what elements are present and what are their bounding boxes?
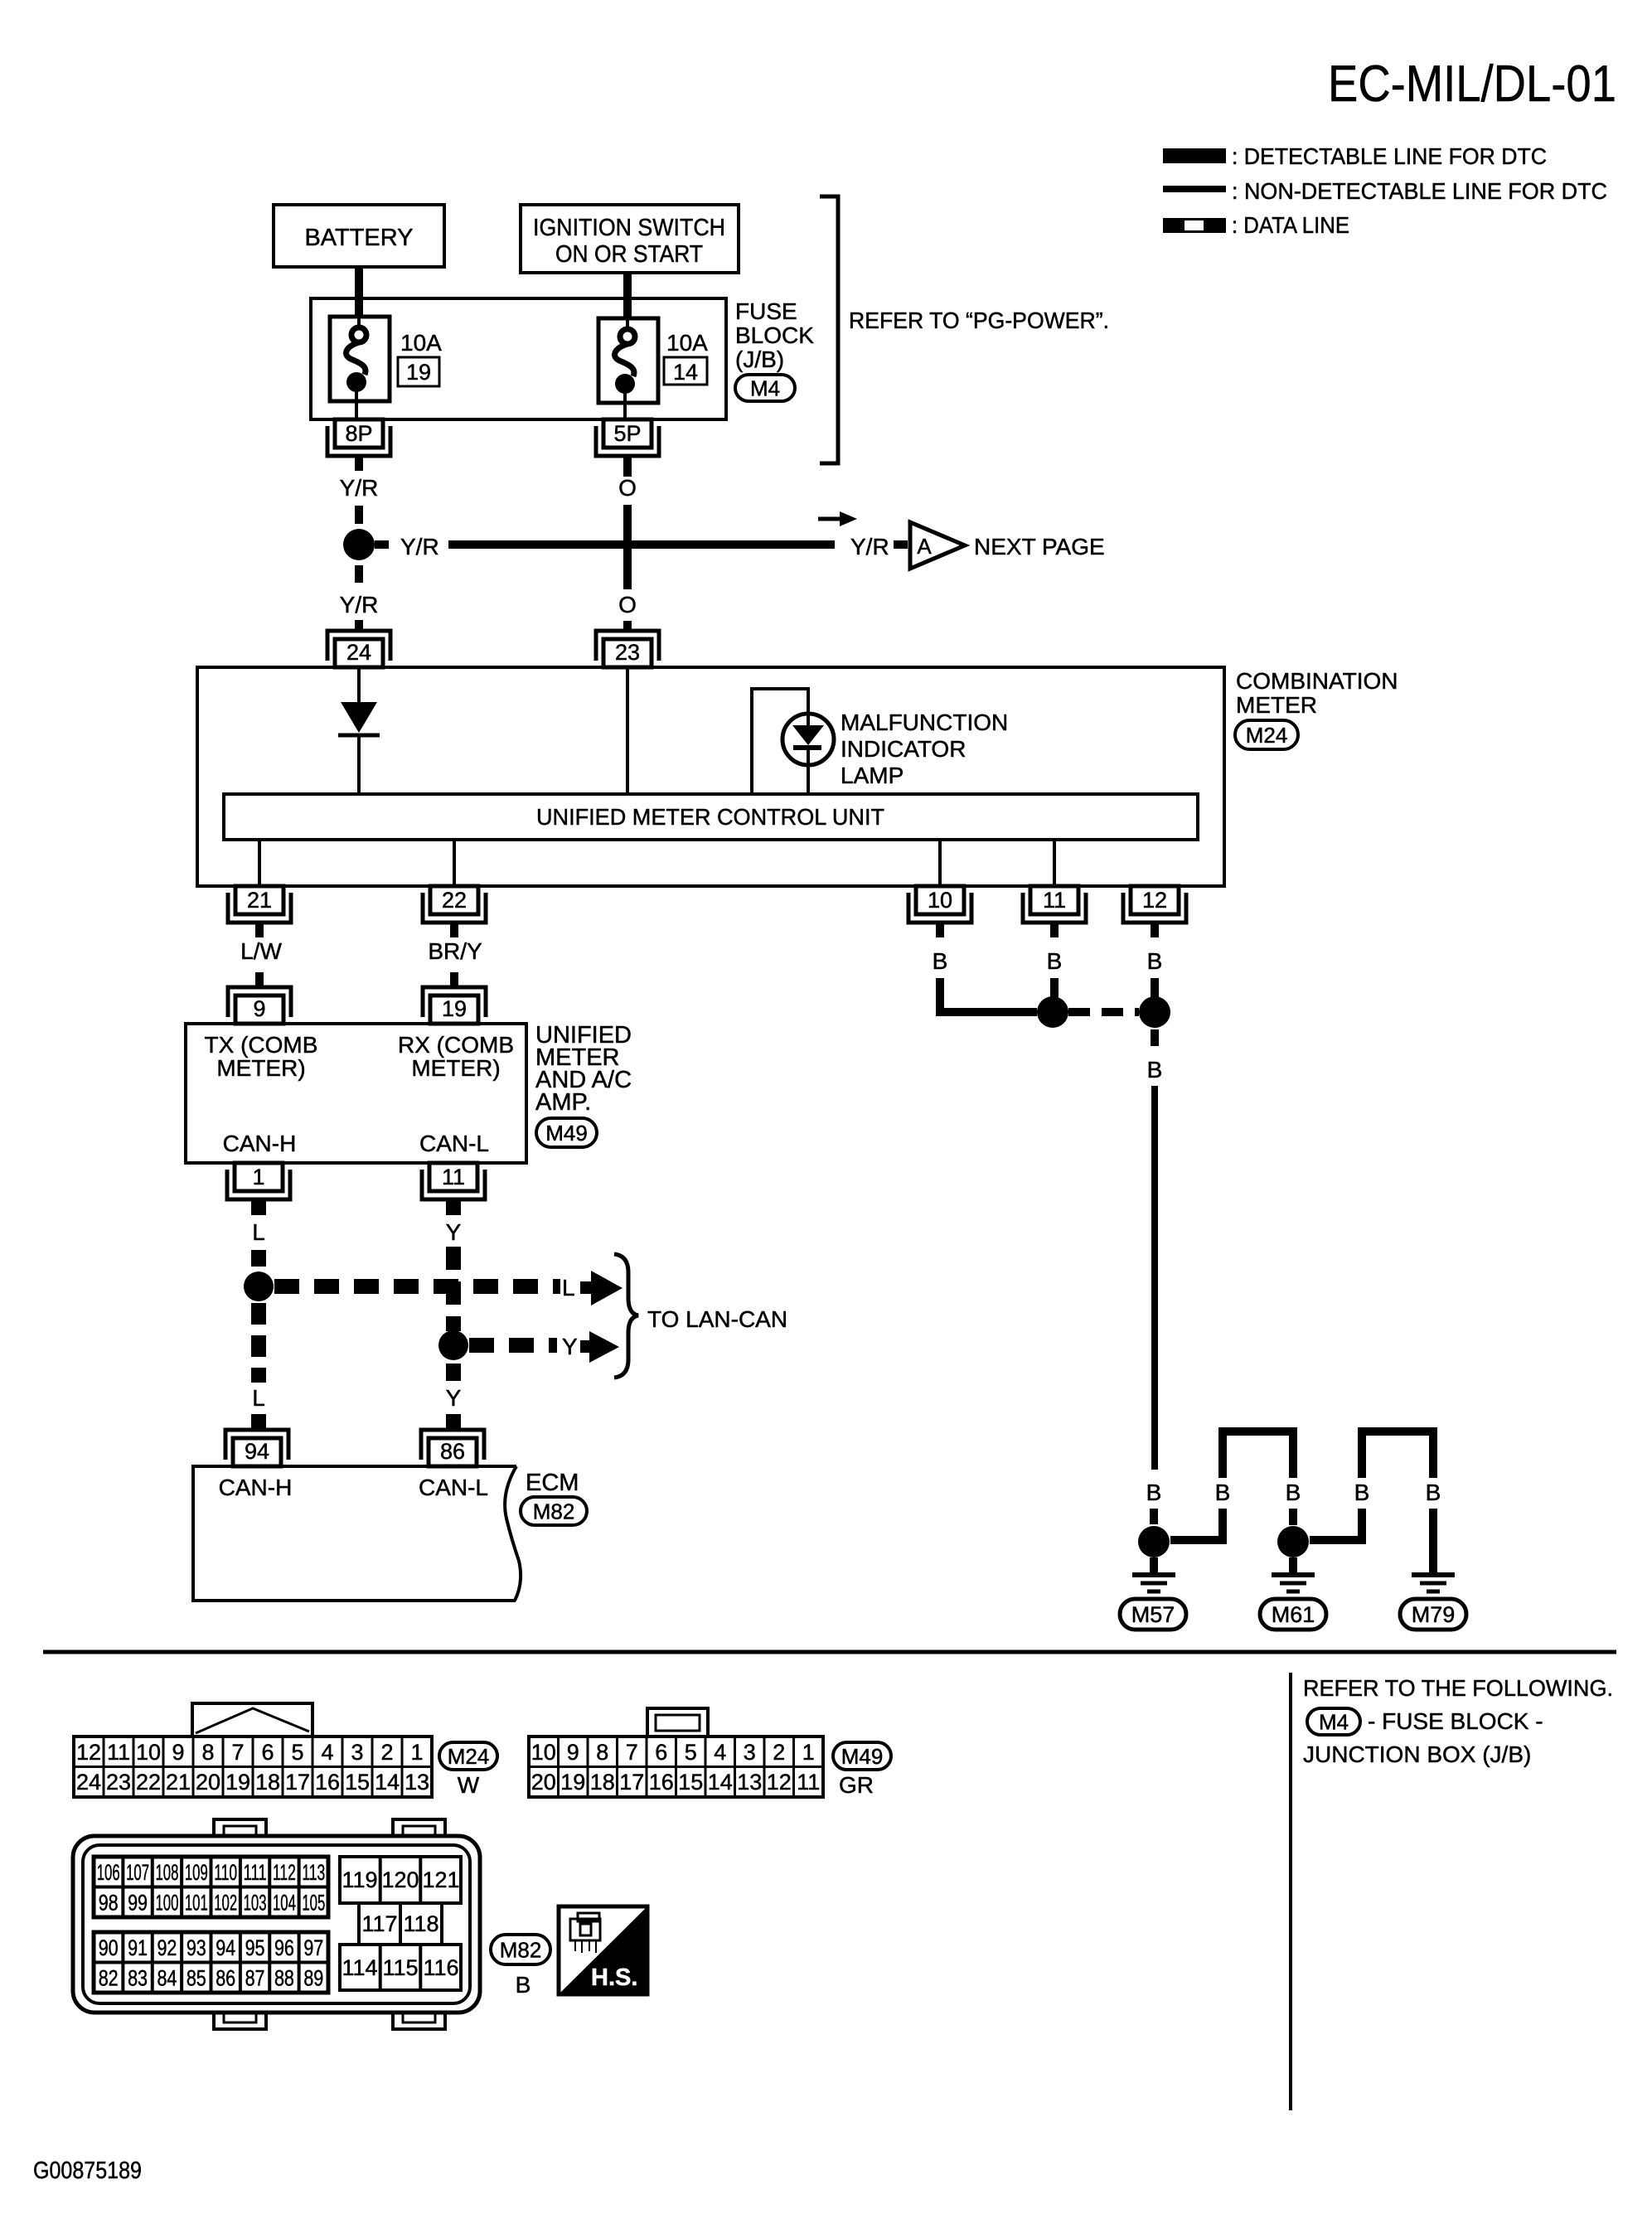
svg-text:13: 13	[737, 1770, 762, 1795]
svg-text:115: 115	[382, 1955, 418, 1980]
svg-text:METER: METER	[1236, 692, 1317, 718]
svg-text:O: O	[618, 475, 637, 501]
svg-text:B: B	[1426, 1480, 1441, 1505]
svg-text:B: B	[933, 948, 948, 974]
svg-text:9: 9	[567, 1740, 579, 1765]
arrow Y to lan-can	[580, 1331, 619, 1363]
svg-text:CAN-L: CAN-L	[419, 1131, 489, 1156]
ground oval M57	[1120, 1599, 1186, 1630]
svg-text:Y: Y	[446, 1385, 462, 1411]
bracket refer to pg-power	[820, 196, 838, 463]
connector 23	[596, 631, 659, 661]
svg-text:: DETECTABLE LINE FOR DTC: : DETECTABLE LINE FOR DTC	[1232, 143, 1547, 169]
M82 top tab 1	[214, 1819, 266, 1837]
label TX comb meter	[205, 1032, 318, 1081]
ground oval M79	[1400, 1599, 1466, 1630]
legend swatch non-detectable line	[1163, 186, 1226, 192]
svg-text:JUNCTION BOX (J/B): JUNCTION BOX (J/B)	[1303, 1741, 1531, 1767]
malfunction indicator lamp	[782, 714, 834, 765]
svg-text:NEXT PAGE: NEXT PAGE	[974, 534, 1105, 559]
svg-text:B: B	[1047, 948, 1063, 974]
svg-text:116: 116	[423, 1955, 458, 1980]
wire pin23 to control unit	[626, 667, 629, 794]
svg-text:103: 103	[244, 1891, 267, 1916]
svg-text:M24: M24	[448, 1744, 490, 1769]
svg-text:24: 24	[346, 640, 371, 665]
svg-text:LAMP: LAMP	[841, 763, 904, 788]
svg-text:B: B	[1354, 1480, 1370, 1505]
junction dot B 2	[1139, 996, 1170, 1028]
wire B from 10 to junction	[940, 978, 1037, 1012]
svg-text:86: 86	[216, 1966, 235, 1991]
wire control unit to pin 21	[258, 840, 261, 886]
svg-text:5P: 5P	[613, 421, 641, 446]
svg-text:6: 6	[261, 1740, 274, 1765]
svg-text:BLOCK: BLOCK	[735, 322, 814, 348]
svg-text:85: 85	[187, 1966, 206, 1991]
svg-text:20: 20	[196, 1770, 220, 1795]
svg-text:11: 11	[107, 1740, 130, 1765]
M82 bottom tab 2	[393, 2012, 445, 2029]
svg-text:B: B	[516, 1972, 531, 1998]
svg-text:118: 118	[403, 1911, 438, 1936]
wire ignition switch to fuse block	[623, 273, 632, 320]
connector 86	[421, 1430, 484, 1460]
wire control unit to pin 22	[453, 840, 456, 886]
svg-text:92: 92	[157, 1935, 177, 1960]
wire dot2 to ground	[1289, 1557, 1297, 1572]
wire Y/R stub before triangle	[894, 540, 908, 549]
svg-text:101: 101	[185, 1891, 208, 1916]
svg-text:14: 14	[673, 360, 698, 385]
separator line	[43, 1650, 1616, 1654]
wire B dash between dots	[1068, 1008, 1139, 1016]
svg-text:7: 7	[626, 1740, 638, 1765]
svg-text:99: 99	[128, 1891, 148, 1916]
svg-text:COMBINATION: COMBINATION	[1236, 668, 1398, 694]
wire malfunction lamp loop	[752, 689, 808, 794]
svg-text:19: 19	[225, 1770, 250, 1795]
svg-text:97: 97	[303, 1935, 323, 1960]
wire g2 to dot 1	[1170, 1509, 1223, 1540]
svg-text:90: 90	[99, 1935, 119, 1960]
wire lamp to control unit	[807, 765, 810, 794]
svg-text:84: 84	[157, 1966, 177, 1991]
svg-text:18: 18	[590, 1770, 615, 1795]
svg-text:B: B	[1147, 948, 1163, 974]
wire Y/R dash 3	[355, 620, 363, 630]
svg-text:117: 117	[361, 1911, 397, 1936]
svg-text:10A: 10A	[666, 330, 708, 356]
ignition switch box	[521, 205, 739, 273]
M82 connector shell	[73, 1836, 480, 2013]
svg-text:14: 14	[708, 1770, 733, 1795]
wire Y/R horizontal	[448, 540, 835, 549]
connector 8P	[327, 426, 390, 456]
svg-text:3: 3	[744, 1740, 756, 1765]
svg-text:UNIFIED METER CONTROL UNIT: UNIFIED METER CONTROL UNIT	[536, 804, 884, 830]
svg-text:17: 17	[285, 1770, 310, 1795]
svg-text:O: O	[618, 592, 637, 618]
M82 drawing oval	[491, 1935, 550, 1964]
svg-text:Y/R: Y/R	[340, 592, 379, 618]
wire data stub above 86	[446, 1414, 461, 1428]
wire B dash to ground dot 2	[1289, 1509, 1297, 1525]
svg-text:L/W: L/W	[240, 938, 282, 964]
svg-text:B: B	[1286, 1480, 1301, 1505]
svg-text:83: 83	[128, 1966, 148, 1991]
direction arrow	[818, 511, 857, 526]
svg-text:11: 11	[1043, 888, 1066, 913]
wire diode to control unit	[357, 735, 361, 794]
svg-text:M57: M57	[1131, 1602, 1175, 1627]
svg-text:107: 107	[126, 1860, 149, 1885]
connector 5P	[596, 426, 659, 456]
svg-text:4: 4	[714, 1740, 726, 1765]
svg-text:19: 19	[406, 360, 431, 385]
wire g5 to ground	[1429, 1509, 1437, 1572]
svg-text:TX (COMB: TX (COMB	[205, 1032, 318, 1058]
wire dot1 to ground	[1150, 1557, 1158, 1572]
svg-text:98: 98	[99, 1891, 119, 1916]
svg-text:M82: M82	[533, 1499, 575, 1523]
wire stub below 11	[1050, 923, 1059, 937]
connector 11	[1023, 893, 1086, 923]
wire B main vertical	[1151, 1086, 1158, 1470]
svg-text:21: 21	[247, 888, 272, 913]
svg-text:1: 1	[252, 1165, 264, 1189]
svg-text:BR/Y: BR/Y	[428, 938, 482, 964]
battery box	[274, 205, 444, 267]
wire stub above 19	[450, 972, 458, 987]
M24 table oval	[439, 1742, 497, 1770]
svg-text:109: 109	[185, 1860, 208, 1885]
wire stub above 9	[255, 972, 264, 987]
svg-text:2: 2	[380, 1740, 393, 1765]
svg-text:12: 12	[76, 1740, 101, 1765]
svg-text:18: 18	[255, 1770, 280, 1795]
wire g4 to dot 2	[1310, 1509, 1362, 1540]
M49 connector key tab	[647, 1708, 708, 1737]
svg-text:: DATA LINE: : DATA LINE	[1232, 212, 1349, 238]
svg-text:Y/R: Y/R	[340, 475, 379, 501]
svg-text:5: 5	[291, 1740, 303, 1765]
svg-text:102: 102	[214, 1891, 237, 1916]
svg-text:89: 89	[303, 1966, 323, 1991]
svg-text:M4: M4	[1319, 1709, 1349, 1734]
legend swatch data line	[1163, 218, 1226, 233]
brace to lan-can	[614, 1254, 638, 1378]
junction dot CAN-L	[438, 1330, 468, 1360]
svg-text:EC-MIL/DL-01: EC-MIL/DL-01	[1328, 56, 1616, 113]
svg-text:BATTERY: BATTERY	[304, 225, 413, 251]
svg-text:110: 110	[214, 1860, 237, 1885]
svg-text:114: 114	[342, 1955, 377, 1980]
svg-text:86: 86	[440, 1439, 465, 1464]
svg-text:M24: M24	[1246, 723, 1288, 748]
ground M79 symbol	[1412, 1572, 1455, 1577]
M24 pin grid	[74, 1737, 432, 1797]
svg-text:M79: M79	[1412, 1602, 1456, 1627]
connector 24	[327, 631, 390, 661]
M82 pin grid upper	[94, 1857, 328, 1917]
svg-text:A: A	[917, 534, 932, 559]
connector oval M4	[735, 375, 795, 401]
combination meter box	[197, 667, 1224, 886]
connector 21	[228, 893, 291, 923]
wire B dash below dot 2	[1151, 1029, 1159, 1046]
svg-text:TO LAN-CAN: TO LAN-CAN	[647, 1306, 787, 1332]
wire Y/R dash	[355, 506, 363, 524]
wire Y/R stub right of dot	[375, 540, 389, 549]
wire stub below 12	[1151, 923, 1159, 937]
svg-text:B: B	[1147, 1057, 1163, 1083]
svg-text:112: 112	[273, 1860, 296, 1885]
wire B dash above dot 2	[1151, 978, 1159, 997]
arrow L to lan-can	[580, 1271, 623, 1305]
unified meter and a/c amp box	[186, 1024, 526, 1163]
wire control unit to pin 10	[938, 840, 942, 886]
svg-text:G00875189: G00875189	[33, 2158, 142, 2184]
junction dot B 1	[1037, 996, 1068, 1028]
svg-text:: NON-DETECTABLE LINE FOR DTC: : NON-DETECTABLE LINE FOR DTC	[1232, 178, 1607, 204]
svg-text:CAN-H: CAN-H	[219, 1475, 293, 1500]
connector 11 amp	[422, 1170, 485, 1199]
wire data Y to lan-can	[469, 1338, 557, 1353]
legend swatch detectable line	[1163, 148, 1226, 163]
svg-text:5: 5	[685, 1740, 697, 1765]
wire data L vertical	[251, 1303, 266, 1383]
svg-text:10: 10	[531, 1740, 556, 1765]
svg-text:GR: GR	[839, 1772, 874, 1798]
svg-text:FUSE: FUSE	[735, 298, 797, 324]
svg-text:1: 1	[802, 1740, 815, 1765]
fuse 14	[598, 318, 658, 403]
wire data stub below 1	[251, 1199, 266, 1215]
svg-text:L: L	[562, 1275, 575, 1301]
M82 top tab 2	[393, 1819, 445, 1837]
connector 22	[423, 893, 486, 923]
svg-text:91: 91	[128, 1935, 148, 1960]
svg-text:8P: 8P	[345, 421, 372, 446]
junction dot Y/R	[343, 529, 375, 560]
svg-text:M82: M82	[500, 1937, 542, 1962]
wire O vertical	[623, 505, 632, 589]
ground bridge 1	[1223, 1431, 1293, 1478]
svg-text:104: 104	[273, 1891, 296, 1916]
wire control unit to pin 11	[1053, 840, 1056, 886]
wire O dash	[623, 621, 632, 630]
svg-text:23: 23	[615, 640, 640, 665]
wire data Y vertical	[446, 1247, 461, 1331]
fuse 19	[330, 317, 390, 401]
svg-text:ECM: ECM	[526, 1470, 579, 1496]
M82 pin grid right	[340, 1857, 461, 1903]
wire battery to fuse block	[355, 267, 363, 318]
connector 94	[225, 1430, 288, 1460]
wire data dash L	[251, 1250, 266, 1267]
svg-text:106: 106	[97, 1860, 120, 1885]
svg-text:11: 11	[442, 1165, 465, 1189]
svg-text:METER): METER)	[411, 1055, 500, 1081]
svg-text:105: 105	[302, 1891, 325, 1916]
fuse block label	[735, 298, 814, 372]
svg-text:1: 1	[410, 1740, 423, 1765]
svg-text:CAN-L: CAN-L	[419, 1475, 488, 1500]
svg-text:96: 96	[274, 1935, 294, 1960]
svg-text:11: 11	[797, 1770, 820, 1795]
svg-text:REFER TO THE FOLLOWING.: REFER TO THE FOLLOWING.	[1303, 1675, 1613, 1701]
svg-text:16: 16	[649, 1770, 674, 1795]
svg-text:M61: M61	[1272, 1602, 1315, 1627]
M49 table oval	[833, 1742, 891, 1770]
svg-text:6: 6	[655, 1740, 667, 1765]
svg-text:2: 2	[773, 1740, 785, 1765]
svg-text:7: 7	[231, 1740, 244, 1765]
svg-text:87: 87	[245, 1966, 265, 1991]
wire data stub below 11	[446, 1199, 461, 1215]
svg-text:AMP.: AMP.	[535, 1089, 591, 1116]
svg-text:INDICATOR: INDICATOR	[841, 736, 966, 762]
svg-text:22: 22	[136, 1770, 161, 1795]
svg-text:RX (COMB: RX (COMB	[398, 1032, 514, 1058]
svg-text:17: 17	[619, 1770, 644, 1795]
svg-text:M4: M4	[750, 375, 780, 400]
connector 9	[228, 987, 291, 1017]
svg-text:121: 121	[422, 1867, 459, 1892]
M82 bottom tab 1	[214, 2012, 266, 2029]
diode	[338, 702, 380, 735]
svg-text:23: 23	[106, 1770, 131, 1795]
wire pin24 to diode	[357, 667, 361, 702]
connector 10	[908, 893, 971, 923]
svg-text:4: 4	[321, 1740, 333, 1765]
footer M4 oval	[1307, 1708, 1360, 1735]
svg-text:8: 8	[201, 1740, 214, 1765]
svg-text:95: 95	[245, 1935, 265, 1960]
label combination meter	[1236, 668, 1398, 718]
svg-text:W: W	[458, 1772, 480, 1798]
svg-text:L: L	[252, 1385, 265, 1411]
ground bridge 2	[1362, 1431, 1433, 1478]
svg-text:M49: M49	[841, 1744, 884, 1769]
connector oval M24	[1235, 720, 1298, 749]
svg-text:113: 113	[302, 1860, 325, 1885]
junction dot CAN-H	[244, 1272, 274, 1301]
ground M61 symbol	[1272, 1572, 1315, 1577]
footer vertical rule	[1289, 1673, 1292, 2110]
wire stub below 21	[255, 923, 264, 937]
wire stub below 22	[450, 923, 458, 937]
svg-text:B: B	[1215, 1480, 1231, 1505]
svg-text:H.S.: H.S.	[591, 1964, 637, 1991]
svg-text:9: 9	[172, 1740, 184, 1765]
svg-text:15: 15	[345, 1770, 370, 1795]
svg-text:88: 88	[274, 1966, 294, 1991]
wire Y/R stub below 8P	[355, 456, 363, 471]
label unified meter and ac amp	[535, 1022, 632, 1116]
ground oval M61	[1260, 1599, 1326, 1630]
fuse number box 19	[398, 357, 439, 386]
svg-text:9: 9	[253, 996, 265, 1021]
wire stub below 10	[936, 923, 944, 937]
svg-text:111: 111	[244, 1860, 267, 1885]
connector oval M82	[521, 1497, 587, 1525]
wire data dash Y below dot	[446, 1364, 461, 1381]
svg-text:L: L	[252, 1219, 265, 1245]
svg-text:Y/R: Y/R	[850, 534, 889, 559]
wire data L to lan-can	[274, 1279, 560, 1294]
svg-text:20: 20	[531, 1770, 556, 1795]
junction dot ground 2	[1277, 1526, 1309, 1557]
unified meter control unit box	[224, 794, 1198, 840]
svg-text:MALFUNCTION: MALFUNCTION	[841, 710, 1008, 735]
svg-text:(J/B): (J/B)	[735, 346, 784, 372]
svg-text:82: 82	[99, 1966, 119, 1991]
svg-text:B: B	[1146, 1480, 1162, 1505]
svg-text:93: 93	[187, 1935, 206, 1960]
svg-text:100: 100	[155, 1891, 178, 1916]
svg-text:22: 22	[442, 888, 467, 913]
svg-text:10A: 10A	[400, 330, 442, 356]
ground M57 symbol	[1132, 1572, 1175, 1577]
label RX comb meter	[398, 1032, 514, 1081]
svg-text:108: 108	[155, 1860, 178, 1885]
M82 pin grid lower	[94, 1932, 328, 1993]
M49 pin grid	[529, 1737, 823, 1797]
svg-text:12: 12	[1142, 888, 1167, 913]
svg-text:120: 120	[381, 1867, 419, 1892]
H.S. view mark	[559, 1906, 647, 1994]
connector 1	[227, 1170, 290, 1199]
M24 connector key tab	[192, 1703, 312, 1737]
svg-text:Y: Y	[446, 1219, 462, 1245]
svg-text:8: 8	[596, 1740, 608, 1765]
svg-text:REFER TO “PG-POWER”.: REFER TO “PG-POWER”.	[849, 308, 1109, 333]
svg-text:19: 19	[442, 996, 467, 1021]
svg-text:16: 16	[315, 1770, 340, 1795]
svg-text:13: 13	[405, 1770, 429, 1795]
svg-text:ON OR START: ON OR START	[555, 241, 703, 268]
svg-text:Y: Y	[562, 1334, 578, 1359]
svg-text:24: 24	[76, 1770, 101, 1795]
svg-text:10: 10	[928, 888, 952, 913]
connector oval M49	[536, 1118, 597, 1147]
svg-text:94: 94	[216, 1935, 235, 1960]
svg-text:21: 21	[166, 1770, 191, 1795]
svg-text:CAN-H: CAN-H	[223, 1131, 297, 1156]
connector 19	[423, 987, 486, 1017]
wire B dash below 11	[1050, 978, 1059, 997]
next page triangle A	[910, 522, 965, 569]
svg-text:19: 19	[560, 1770, 585, 1795]
fuse block J/B box	[311, 298, 726, 419]
svg-text:M49: M49	[545, 1121, 588, 1146]
svg-text:94: 94	[245, 1439, 269, 1464]
wire O stub below 5P	[623, 456, 632, 477]
svg-text:12: 12	[767, 1770, 792, 1795]
wire data stub above 94	[251, 1414, 266, 1428]
connector 12	[1123, 893, 1186, 923]
svg-text:3: 3	[351, 1740, 363, 1765]
wire B dash to ground dot 1	[1150, 1509, 1158, 1524]
junction dot ground 1	[1138, 1526, 1170, 1557]
wire Y/R dash 2	[355, 565, 363, 583]
label malfunction indicator lamp	[841, 710, 1008, 788]
svg-text:14: 14	[375, 1770, 400, 1795]
svg-text:Y/R: Y/R	[400, 534, 439, 559]
svg-text:119: 119	[342, 1867, 377, 1892]
